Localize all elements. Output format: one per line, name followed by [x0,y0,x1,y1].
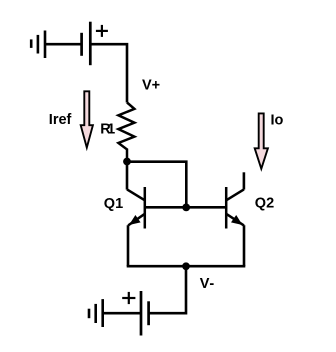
plus label of battery B2 [122,292,135,304]
transistor Q2 (NPN, base on left) [226,187,244,229]
ground (top-left, IEC bars) [31,31,45,59]
Io current arrow [255,113,268,168]
resistor R1 [118,103,134,162]
wire battery B2 positive to ground-bottom [103,312,141,315]
wire bottom emitter rail [127,265,246,268]
wire battery B1 positive to node V+ branch (corner down to R1) [90,44,127,102]
ground (bottom, IEC bars) [89,299,103,327]
wire Q1 emitter down to bottom rail [127,225,130,266]
battery B2 (bottom, V- supply) [141,291,149,336]
wire base rail Q1 base to Q2 base [146,206,226,209]
wire node A down to Q1 collector [126,162,129,190]
node V- junction dot [182,262,190,270]
transistor Q1 (NPN, mirrored, base on right) [127,187,145,229]
Iref current arrow [81,91,93,147]
wire V- node down and left to battery B2 [149,266,186,313]
wire Q2 collector stub (output) [243,172,246,189]
wire node A to base junction (over and down) [127,162,186,208]
svg-text:Iref: Iref [49,112,72,128]
svg-text:Q2: Q2 [255,195,274,211]
wire Q2 emitter down to bottom rail [243,225,246,266]
svg-text:V+: V+ [142,77,160,93]
svg-text:V: V [200,276,210,292]
svg-text:Q1: Q1 [104,196,123,212]
node base junction dot [182,204,190,212]
battery B1 (top, V+ supply) [82,22,91,65]
svg-text:-: - [209,276,214,292]
svg-text:Io: Io [271,112,284,128]
svg-text:R1: R1 [100,122,115,138]
node A junction dot (R1 / Q1 collector / base tie) [123,158,131,166]
wire ground-top to battery B1 [45,43,82,46]
plus label of battery B1 [96,25,108,37]
